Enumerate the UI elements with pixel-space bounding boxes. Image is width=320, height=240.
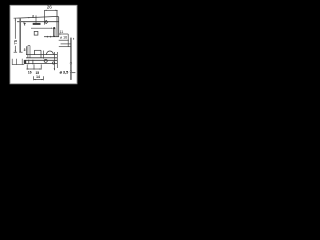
square follower hole — [34, 31, 38, 35]
fig2 case top line — [26, 54, 57, 56]
keyhole axis leader with arrow — [31, 28, 53, 29]
keyhole slot — [54, 28, 55, 36]
fig2 bar tick x32.9 — [32, 60, 34, 64]
svg-text:3: 3 — [24, 48, 26, 52]
fig3 leader tick — [72, 72, 75, 74]
fig2 bolt pair — [28, 46, 30, 58]
fig2 left vertical — [25, 46, 27, 54]
dark latch bar — [33, 23, 41, 25]
dim 26 line — [44, 10, 57, 25]
ext vertical x36 — [35, 15, 37, 23]
chained dim line y69 — [26, 64, 41, 69]
faceplate bottom cap — [19, 51, 22, 53]
svg-text:11: 11 — [60, 30, 64, 34]
ext vertical left x44.4 — [43, 10, 45, 24]
dim 8 arrow at left — [27, 17, 30, 18]
right line B — [59, 46, 71, 48]
fig3 strip top tick — [73, 38, 75, 40]
fig2 bar bottom line — [24, 63, 57, 65]
fig2 spindle circle — [44, 59, 47, 62]
fig1 case right edge — [58, 17, 60, 37]
transparent margin backdrop (stored black) — [0, 0, 90, 90]
fig1 case inner top line — [17, 21, 59, 23]
svg-text:16: 16 — [28, 70, 32, 74]
fig1 case bottom right segment — [44, 36, 59, 38]
fig2 dome arc — [47, 51, 54, 54]
fig2 bar top line — [24, 59, 57, 61]
svg-text:⌀ 3,5: ⌀ 3,5 — [60, 70, 69, 74]
dim 14 line — [34, 76, 44, 80]
corner leader arrow blob — [23, 22, 26, 25]
white content area — [10, 5, 77, 84]
svg-text:14: 14 — [36, 75, 40, 79]
left small dim: line and ticks — [12, 59, 24, 65]
fig2 right end verticals — [54, 52, 58, 70]
fig2 bar left cap — [24, 60, 26, 64]
fig2 bar right screw circle — [52, 62, 54, 64]
fig3 faceplate strip — [70, 38, 72, 80]
keyhole dot — [53, 27, 55, 29]
svg-text:75: 75 — [13, 39, 18, 44]
spindle diamond hole — [45, 20, 48, 23]
dim 75 line top segment — [14, 18, 18, 39]
fig2 follower housing box — [34, 50, 41, 58]
top ext tick — [14, 17, 18, 19]
fig2 case second line — [26, 57, 57, 59]
right connector vertical — [67, 34, 69, 47]
dim 11 line — [59, 33, 68, 34]
dim d16 line — [59, 39, 69, 41]
svg-text:8: 8 — [32, 14, 34, 18]
dim 75 line bottom segment — [14, 46, 18, 52]
fig2 mid vertical x43.5 — [43, 51, 45, 59]
svg-text:26: 26 — [47, 5, 53, 10]
fig1 case top edge — [17, 16, 59, 18]
fig1 case inner right line — [56, 10, 58, 36]
fig3 screw hole mid — [70, 62, 72, 64]
faceplate bar — [19, 18, 21, 53]
right line A — [61, 43, 71, 45]
svg-text:⌀ 16: ⌀ 16 — [60, 35, 67, 39]
fig3 screw hole lower — [70, 71, 72, 73]
